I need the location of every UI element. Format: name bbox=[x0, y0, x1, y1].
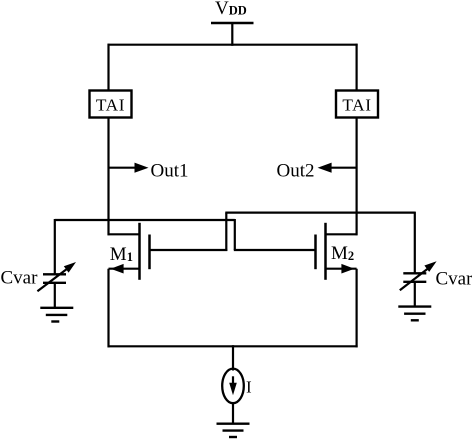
svg-text:VDD: VDD bbox=[215, 0, 247, 19]
capacitor Cvar left bbox=[37, 262, 76, 291]
capacitor Cvar right bbox=[400, 261, 437, 290]
ground left bbox=[40, 308, 73, 322]
wire left vertical (TAI to M1 drain) bbox=[107, 118, 109, 236]
svg-text:Out1: Out1 bbox=[151, 161, 189, 182]
svg-text:Out2: Out2 bbox=[277, 161, 315, 182]
power supply VDD bar bbox=[211, 22, 254, 24]
wire right vertical (TAI to M2 drain) bbox=[356, 118, 358, 236]
wire bottom rail bbox=[108, 345, 358, 347]
wire left vertical (rail to TAI) bbox=[107, 44, 109, 91]
wire node Out1 horizontal (left Cvar to cross-couple jog) bbox=[55, 219, 235, 221]
wire jog left-drain to right-gate bbox=[234, 219, 236, 250]
svg-text:Cvar: Cvar bbox=[436, 269, 472, 290]
wire VDD stub bbox=[231, 23, 233, 46]
wire tail to current source bbox=[232, 345, 234, 370]
output Out1 arrow bbox=[109, 163, 149, 173]
output Out2 arrow bbox=[318, 163, 357, 173]
wire current source to ground bbox=[232, 403, 234, 425]
wire left gate lead bbox=[149, 249, 228, 251]
wire jog right-drain to left-gate bbox=[225, 213, 227, 251]
ground right bbox=[398, 307, 431, 321]
transistor M1 bbox=[108, 223, 150, 280]
wire right vertical (rail to TAI) bbox=[356, 44, 358, 91]
wire right Cvar vertical bbox=[414, 212, 416, 275]
svg-text:TAI: TAI bbox=[96, 96, 125, 115]
svg-text:M2: M2 bbox=[331, 243, 354, 264]
wire right gate lead bbox=[234, 249, 317, 251]
wire left Cvar vertical bbox=[54, 219, 56, 275]
wire left Cvar to ground bbox=[54, 283, 56, 309]
wire M1 source down bbox=[107, 269, 109, 348]
svg-text:Cvar: Cvar bbox=[1, 268, 39, 289]
wire right Cvar to ground bbox=[414, 282, 416, 308]
block U1 TAI left bbox=[90, 91, 132, 118]
wire node Out2 horizontal (jog to right Cvar) bbox=[225, 212, 414, 214]
wire M2 source down bbox=[356, 269, 358, 348]
svg-text:I: I bbox=[246, 378, 252, 397]
label VDD bbox=[215, 0, 247, 19]
block U2 TAI right bbox=[336, 91, 378, 118]
wire top rail bbox=[108, 44, 358, 46]
current source I bbox=[222, 369, 244, 404]
svg-text:M1: M1 bbox=[110, 244, 133, 265]
svg-text:TAI: TAI bbox=[342, 96, 371, 115]
transistor M2 bbox=[316, 223, 358, 280]
ground bottom bbox=[217, 424, 250, 437]
